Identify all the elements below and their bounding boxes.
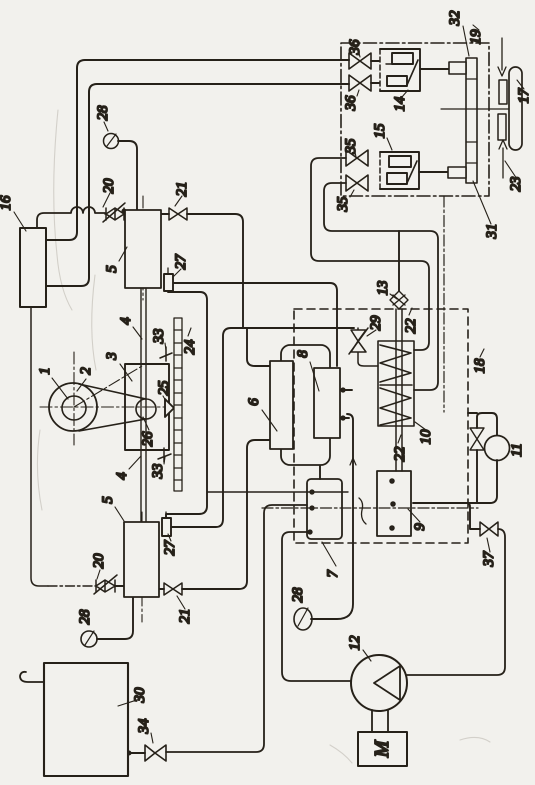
component: cylinder 5a xyxy=(125,210,161,288)
svg-text:27: 27 xyxy=(162,539,178,556)
component: bleed element 27b xyxy=(162,518,171,536)
wire: pin line through box 7 xyxy=(207,491,348,493)
wire: valve 11 and circle 11 parallel loop xyxy=(468,413,497,503)
node: stub dots on box 8 xyxy=(341,388,344,391)
wire: cam diagonal dash-dot axis xyxy=(74,366,142,407)
svg-text:23: 23 xyxy=(508,177,524,192)
component: cylinder 5b xyxy=(124,522,159,597)
component: clamp 33a xyxy=(160,347,172,361)
svg-text:5: 5 xyxy=(100,496,116,504)
component: cam disc 1 and 2 xyxy=(49,383,97,431)
wire: link pipe between element 27a and element 27b xyxy=(166,292,207,518)
wire: box 6 bottom port down to valve 21b xyxy=(182,440,270,589)
wire: cylinder 5a to valve 21a stub xyxy=(161,213,169,215)
svg-text:33: 33 xyxy=(151,329,167,345)
wire: element 27a to top of box 8 xyxy=(173,283,337,366)
svg-text:21: 21 xyxy=(174,182,190,197)
svg-text:34: 34 xyxy=(136,718,152,735)
svg-text:28: 28 xyxy=(290,587,306,603)
component: pointer 25 on scale xyxy=(165,399,174,417)
svg-text:20: 20 xyxy=(101,178,117,194)
svg-text:35: 35 xyxy=(335,196,351,213)
component: scale ruler 24 xyxy=(174,318,182,491)
component: spring unit 10 with rod 22 xyxy=(378,341,414,426)
component: valve 21b xyxy=(164,583,182,595)
component: valve 36a xyxy=(349,53,371,69)
component: valve 35b xyxy=(346,175,368,191)
component: wheel rim 17 xyxy=(509,67,522,150)
component: rounded housing of unit 8 xyxy=(281,345,330,465)
svg-text:33: 33 xyxy=(150,464,166,480)
svg-text:6: 6 xyxy=(246,398,262,406)
svg-text:17: 17 xyxy=(516,87,532,104)
svg-text:28: 28 xyxy=(95,105,111,121)
wire: box 15 to bar 32 bottom tab xyxy=(419,171,448,173)
wire: cylinder 5a dash-dot centerline xyxy=(142,196,144,300)
component: solenoid box 14 xyxy=(380,49,420,91)
wire: branch from line y=328 down into box 6 top port xyxy=(247,329,270,366)
wire: riser to valve 37 xyxy=(467,503,480,529)
wire: pipe from tank 16 top to valve 20a with crossing humps xyxy=(37,207,105,228)
component: dashed boundary box 18 xyxy=(294,309,468,543)
svg-text:20: 20 xyxy=(91,553,107,569)
component: cam follower roller xyxy=(136,399,156,419)
wire: cylinder 5b dash-dot centerline xyxy=(141,512,143,622)
component: valve 20a with closed slash xyxy=(103,203,125,222)
component: clamp 33b xyxy=(158,448,171,462)
wire: box 8 right stubs xyxy=(340,390,352,418)
svg-text:30: 30 xyxy=(132,687,148,704)
svg-text:28: 28 xyxy=(77,609,93,625)
component: valve 34 xyxy=(145,745,166,761)
component: valve 35a xyxy=(346,150,368,166)
svg-text:7: 7 xyxy=(325,569,341,578)
wire: tank 30 breather hook xyxy=(20,672,44,682)
component: pilot valve 29 xyxy=(349,328,378,366)
wire: housing to box 7 connection xyxy=(319,466,321,479)
component: follower frame 3 xyxy=(125,364,169,450)
svg-text:21: 21 xyxy=(177,609,193,624)
component: bleed element 27a xyxy=(164,274,173,291)
svg-text:27: 27 xyxy=(173,253,189,270)
wire: brace squiggle between box 7 and box 9 xyxy=(359,498,366,524)
svg-text:31: 31 xyxy=(484,224,500,240)
component: valve 36b xyxy=(349,75,371,91)
svg-text:4: 4 xyxy=(114,472,130,480)
component: gauge 28a xyxy=(104,134,119,149)
wire: axis line through bar 32 to wheel 17 xyxy=(441,108,509,110)
svg-text:12: 12 xyxy=(347,635,363,651)
svg-text:3: 3 xyxy=(104,352,120,361)
wire: valve 36a to box 14 xyxy=(371,61,379,83)
component: dash-dot boundary box 19 xyxy=(341,43,489,196)
component: tank 30 xyxy=(44,663,128,776)
wire: valve 35a loop to spring unit 10 upper port xyxy=(311,158,429,350)
wire: piston rod 4 double line between cylinders xyxy=(141,288,146,522)
svg-text:22: 22 xyxy=(392,446,408,462)
wire: cylinder 5b bottom to gauge 28c xyxy=(97,597,133,639)
svg-text:26: 26 xyxy=(140,431,156,447)
wire: inner top supply pipe from tank 16 to valve 36b xyxy=(46,84,349,286)
wire: upward arrow on riser near box 7 xyxy=(350,458,356,465)
svg-text:32: 32 xyxy=(447,10,463,27)
component: throttle valve 11a (vertical) xyxy=(470,428,484,450)
wire: valve 21a down the right side to valve 21b xyxy=(187,214,243,328)
component: box 7 xyxy=(307,479,342,539)
svg-text:35: 35 xyxy=(343,138,359,155)
wire: pipe P2 from box 7 lower left to pump 12 left xyxy=(282,532,351,681)
component: pressure vessel circle 11 xyxy=(485,436,510,461)
component: valve 21a xyxy=(169,208,187,220)
svg-text:9: 9 xyxy=(412,523,428,531)
component: valve 20b with closed slash xyxy=(94,575,117,594)
wire: valve 20b to cylinder 5b stub xyxy=(115,585,124,587)
svg-text:29: 29 xyxy=(368,315,384,331)
wire: motor stems xyxy=(372,710,388,732)
wire: dash-dot centerline through boxes 7 and 9 xyxy=(262,507,478,509)
svg-text:M: M xyxy=(371,739,393,758)
svg-text:15: 15 xyxy=(372,123,388,139)
component: diamond throttle 13 xyxy=(390,291,408,309)
node: junction dot at valve 20a outlet xyxy=(122,209,125,212)
wire: box 9 right port line xyxy=(413,502,470,504)
wire: rod 22 double line from diamond 13 through spring 10 to box 9 xyxy=(396,309,402,471)
wire: cam tangent outline to follower xyxy=(79,384,146,431)
wire: gauge 28a to top of cylinder 5a xyxy=(118,141,137,210)
wire: arrow 23 lower xyxy=(499,140,507,178)
wire: arrow 23 upper xyxy=(498,38,506,76)
component: gauge 28b xyxy=(294,608,312,630)
svg-text:13: 13 xyxy=(375,281,391,296)
svg-text:8: 8 xyxy=(295,350,311,358)
component: tank 16 xyxy=(20,228,46,307)
component: brake bar 32 with tabs xyxy=(448,58,477,183)
svg-text:1: 1 xyxy=(37,367,53,375)
component: control box 8 xyxy=(314,368,340,438)
wire: cam vertical dash-dot centerline xyxy=(73,352,75,445)
wire: tank 16 bottom riser to valve 20b xyxy=(31,307,48,586)
svg-text:16: 16 xyxy=(0,195,14,211)
svg-text:37: 37 xyxy=(481,550,497,568)
svg-text:22: 22 xyxy=(403,318,419,334)
svg-text:25: 25 xyxy=(156,380,172,396)
component: motor M xyxy=(358,732,407,766)
wire: valve 35b loop to spring unit 10 lower port xyxy=(324,183,438,390)
component: solenoid box 15 xyxy=(380,152,419,189)
component: brake pads 23 xyxy=(499,80,507,104)
svg-text:14: 14 xyxy=(392,96,408,112)
wire: main line y=328 from element 27b up and across to valve 29 xyxy=(170,328,354,527)
svg-text:36: 36 xyxy=(347,39,363,56)
component: control box 6 xyxy=(270,361,293,449)
svg-text:11: 11 xyxy=(509,443,525,457)
svg-text:18: 18 xyxy=(472,358,488,374)
wire: cam horizontal dash-dot centerline xyxy=(40,406,170,408)
svg-text:36: 36 xyxy=(343,95,359,112)
wire: gauge 28b riser up alongside box 7 xyxy=(311,414,353,619)
wire: valve 34 to tank 30 xyxy=(128,752,145,754)
component: box 9 xyxy=(377,471,411,536)
component: gauge 28c xyxy=(81,631,97,647)
wire: valve 37 down to pump 12 right xyxy=(407,529,505,675)
wire: pipe P1 from box 7 left to valve 34 xyxy=(166,505,307,752)
svg-text:10: 10 xyxy=(418,429,434,445)
wire: riser from line y=231 down to diamond throttle 13 xyxy=(398,231,400,291)
wire: box 14 to bar 32 top tab xyxy=(420,68,449,70)
component: pump 12 xyxy=(351,655,407,711)
svg-text:4: 4 xyxy=(118,317,134,325)
wire: cylinder 5b to valve 21b stub xyxy=(159,588,164,590)
svg-text:2: 2 xyxy=(78,367,94,375)
svg-text:19: 19 xyxy=(468,29,484,45)
wire: outer top supply pipe from tank 16 to valve 36a xyxy=(46,60,349,240)
svg-text:24: 24 xyxy=(182,339,198,355)
node: junction dot left of valve 34 xyxy=(127,751,130,754)
scan artifact smudges (decorative) xyxy=(37,110,490,763)
wire: leader to label 23 xyxy=(505,161,517,179)
component: valve 37 xyxy=(480,522,498,536)
svg-text:5: 5 xyxy=(104,265,120,273)
wire: dash-dot link from box 19 down to box 18 xyxy=(443,196,445,412)
